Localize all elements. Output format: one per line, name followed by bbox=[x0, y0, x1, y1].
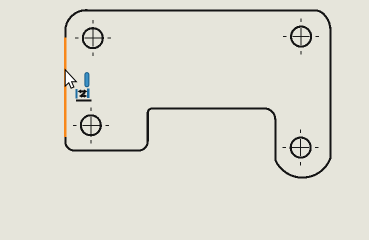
slot preview capsule (blue) bbox=[85, 73, 89, 87]
cursor badge: left extension bar bbox=[76, 89, 78, 98]
hole circle bottom-left bbox=[81, 115, 101, 135]
crosshair bottom-left bbox=[73, 107, 109, 143]
hole circle top-left bbox=[83, 28, 103, 48]
crosshair bottom-right bbox=[283, 130, 319, 166]
cursor badge: upper double arrow bbox=[78, 89, 88, 93]
selected (orange) left edge bbox=[64, 38, 66, 137]
mouse cursor arrow bbox=[65, 70, 76, 89]
cursor badge: bottom bar bbox=[76, 99, 92, 101]
cursor badge: lower double arrow bbox=[79, 94, 87, 98]
crosshair top-right bbox=[283, 19, 319, 55]
hole circle bottom-right bbox=[291, 138, 311, 158]
cursor badge: right extension bar bbox=[87, 89, 89, 98]
viewport background bbox=[0, 0, 369, 190]
crosshair top-left bbox=[75, 20, 111, 56]
hole circle top-right bbox=[291, 27, 311, 47]
cursor badge: connector diagonal bbox=[81, 92, 85, 95]
plate outline (sketch profile) bbox=[65, 10, 330, 177]
